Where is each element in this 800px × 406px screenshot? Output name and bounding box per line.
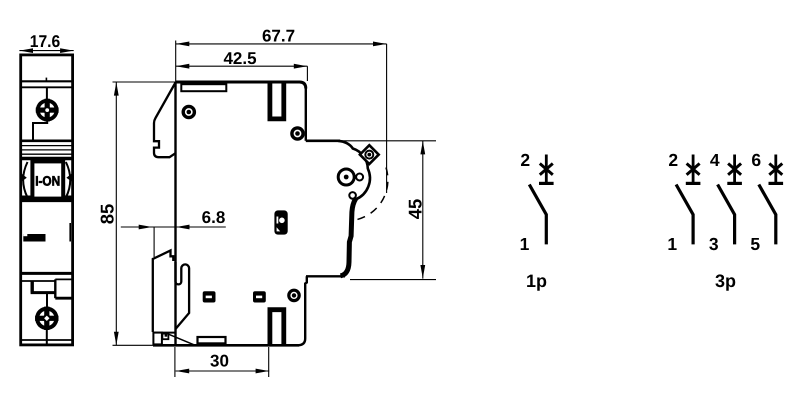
terminal square 2 bbox=[253, 291, 266, 302]
toggle right wedge bbox=[66, 172, 73, 182]
small circle below pivot bbox=[349, 192, 356, 199]
dimension 6.8 left arrow bbox=[139, 225, 152, 230]
bottom U slot bbox=[270, 310, 284, 346]
dimension 42.5 line bbox=[176, 65, 308, 67]
louver thin line 2 bbox=[22, 149, 72, 151]
dimension 42.5 left arrow bbox=[176, 64, 189, 69]
front divider center tick bbox=[45, 78, 47, 82]
lower clip small box bbox=[162, 334, 168, 340]
top U slot bbox=[270, 81, 284, 119]
extension line 30 left bbox=[174, 347, 176, 377]
bottom terminal screw bbox=[35, 307, 58, 330]
rivet A bbox=[183, 106, 194, 117]
label slot bbox=[181, 84, 226, 91]
bottom pad bbox=[198, 337, 226, 343]
louver band bottom thick line bbox=[20, 157, 73, 161]
svg-text:4: 4 bbox=[710, 150, 720, 170]
terminal square 1 bbox=[203, 291, 216, 302]
pole B breaker symbol bbox=[727, 155, 742, 184]
extension line 30 right bbox=[268, 347, 270, 377]
pole A breaker symbol bbox=[686, 155, 701, 184]
dimension 85 line bbox=[115, 82, 117, 345]
body left edge bbox=[174, 82, 176, 345]
front divider line upper bbox=[20, 80, 73, 82]
dimension 85 bottom arrow bbox=[114, 332, 119, 345]
extension line 85 top bbox=[113, 81, 177, 83]
toggle left wedge bbox=[20, 172, 27, 182]
pole 1p blade bbox=[529, 185, 546, 245]
mid-section right inner line bbox=[69, 223, 71, 242]
toggle right bracket arc bbox=[66, 162, 70, 198]
dimension 17.6 left arrow bbox=[20, 48, 33, 53]
svg-text:6: 6 bbox=[751, 150, 761, 170]
rivet B bbox=[292, 128, 303, 139]
pole C breaker symbol bbox=[769, 155, 784, 184]
dimension 6.8 right arrow bbox=[176, 225, 189, 230]
front divider line lower bbox=[20, 86, 73, 88]
svg-text:42.5: 42.5 bbox=[223, 49, 256, 68]
extension line 42.5 right bbox=[306, 66, 308, 81]
step lower right bbox=[306, 275, 345, 277]
dashed travel arc bbox=[355, 168, 388, 221]
toggle bottom right corner block bbox=[63, 196, 73, 203]
louver thin line 1 bbox=[22, 145, 72, 147]
dimension 30 left arrow bbox=[176, 369, 189, 374]
extension line 6.8 clip edge bbox=[153, 227, 155, 257]
svg-text:2: 2 bbox=[668, 150, 678, 170]
svg-text:17.6: 17.6 bbox=[30, 32, 61, 51]
top terminal screw bbox=[36, 99, 59, 122]
extension line left edge up bbox=[175, 41, 177, 83]
svg-text:5: 5 bbox=[750, 234, 760, 254]
handle front edge bbox=[341, 199, 356, 276]
pole B blade bbox=[718, 185, 735, 245]
dimension 42.5 right arrow bbox=[294, 64, 307, 69]
dimension 30 line bbox=[176, 370, 270, 372]
wire to bottom screw bbox=[46, 293, 48, 308]
extension line 45 bottom bbox=[350, 279, 436, 281]
small circle right of pivot bbox=[356, 174, 363, 181]
toggle left bracket arc bbox=[23, 162, 27, 198]
svg-text:1p: 1p bbox=[526, 271, 547, 291]
dimension 45 bottom arrow bbox=[420, 265, 425, 278]
svg-text:67.7: 67.7 bbox=[262, 27, 295, 46]
body bottom edge bbox=[153, 344, 299, 347]
body right upper edge bbox=[305, 87, 307, 141]
dimension 67.7 right arrow bbox=[373, 42, 386, 47]
louver thin line 3 bbox=[22, 153, 72, 155]
dimension 30 right arrow bbox=[256, 369, 269, 374]
lower stepped line left bbox=[21, 280, 56, 282]
handle housing arc bbox=[338, 141, 370, 200]
lower step horizontal bar bbox=[31, 291, 56, 294]
svg-text:30: 30 bbox=[210, 352, 229, 371]
lower DIN clip hook bbox=[176, 262, 190, 329]
pivot rivet bbox=[338, 169, 354, 185]
dimension 67.7 line bbox=[176, 43, 387, 45]
handle screw square bbox=[360, 145, 379, 164]
louver band top line bbox=[20, 140, 73, 143]
lower step vertical 2 bbox=[54, 279, 56, 298]
svg-text:1: 1 bbox=[667, 234, 677, 254]
lower clip diagonal bbox=[169, 334, 195, 345]
svg-text:85: 85 bbox=[97, 204, 118, 225]
extension line 67.7 right bbox=[386, 44, 388, 193]
top DIN hook bbox=[154, 83, 176, 158]
lower right rivet bbox=[289, 290, 299, 300]
wire below bottom screw bbox=[46, 329, 48, 344]
front view body outline bbox=[21, 55, 73, 345]
svg-text:2: 2 bbox=[520, 150, 530, 170]
dimension 85 top arrow bbox=[114, 82, 119, 95]
dimension 67.7 left arrow bbox=[176, 42, 189, 47]
svg-text:1: 1 bbox=[520, 234, 530, 254]
lower step horizontal 2 bbox=[55, 297, 73, 300]
dimension 45 line bbox=[422, 141, 424, 279]
lower clip ledge bbox=[153, 332, 176, 334]
toggle handle bbox=[32, 161, 63, 198]
bottom thin line bbox=[20, 339, 73, 341]
lower right jog bbox=[298, 276, 307, 345]
svg-text:3: 3 bbox=[709, 234, 719, 254]
step upper right bbox=[306, 140, 340, 143]
svg-text:6.8: 6.8 bbox=[202, 208, 226, 227]
toggle bottom left corner block bbox=[20, 196, 31, 203]
mid-section indicator bar bbox=[23, 234, 45, 242]
lower DIN clip bbox=[153, 251, 174, 333]
extension line 85 bottom bbox=[113, 344, 154, 346]
dimension 45 top arrow bbox=[420, 141, 425, 154]
svg-text:3p: 3p bbox=[715, 271, 736, 291]
dimension 6.8 line bbox=[121, 226, 226, 228]
lower clip foot box bbox=[153, 333, 162, 345]
lower section top thick line bbox=[20, 272, 73, 275]
stepped wire below top screw bbox=[33, 121, 47, 140]
dimension 17.6 right arrow bbox=[60, 48, 73, 53]
svg-text:I-ON: I-ON bbox=[35, 173, 60, 188]
toggle section bottom thick line bbox=[20, 199, 73, 202]
lower step vertical bar bbox=[31, 281, 34, 293]
wire from divider to top screw bbox=[46, 87, 48, 99]
dimension 17.6 line bbox=[19, 50, 73, 52]
body top edge bbox=[176, 82, 306, 89]
pole 1p breaker symbol bbox=[539, 155, 554, 184]
lower stepped line right bbox=[55, 278, 73, 280]
mid element bbox=[274, 210, 287, 234]
pole C blade bbox=[759, 185, 776, 245]
pole A blade bbox=[676, 185, 693, 245]
extension line 45 top bbox=[340, 140, 436, 142]
